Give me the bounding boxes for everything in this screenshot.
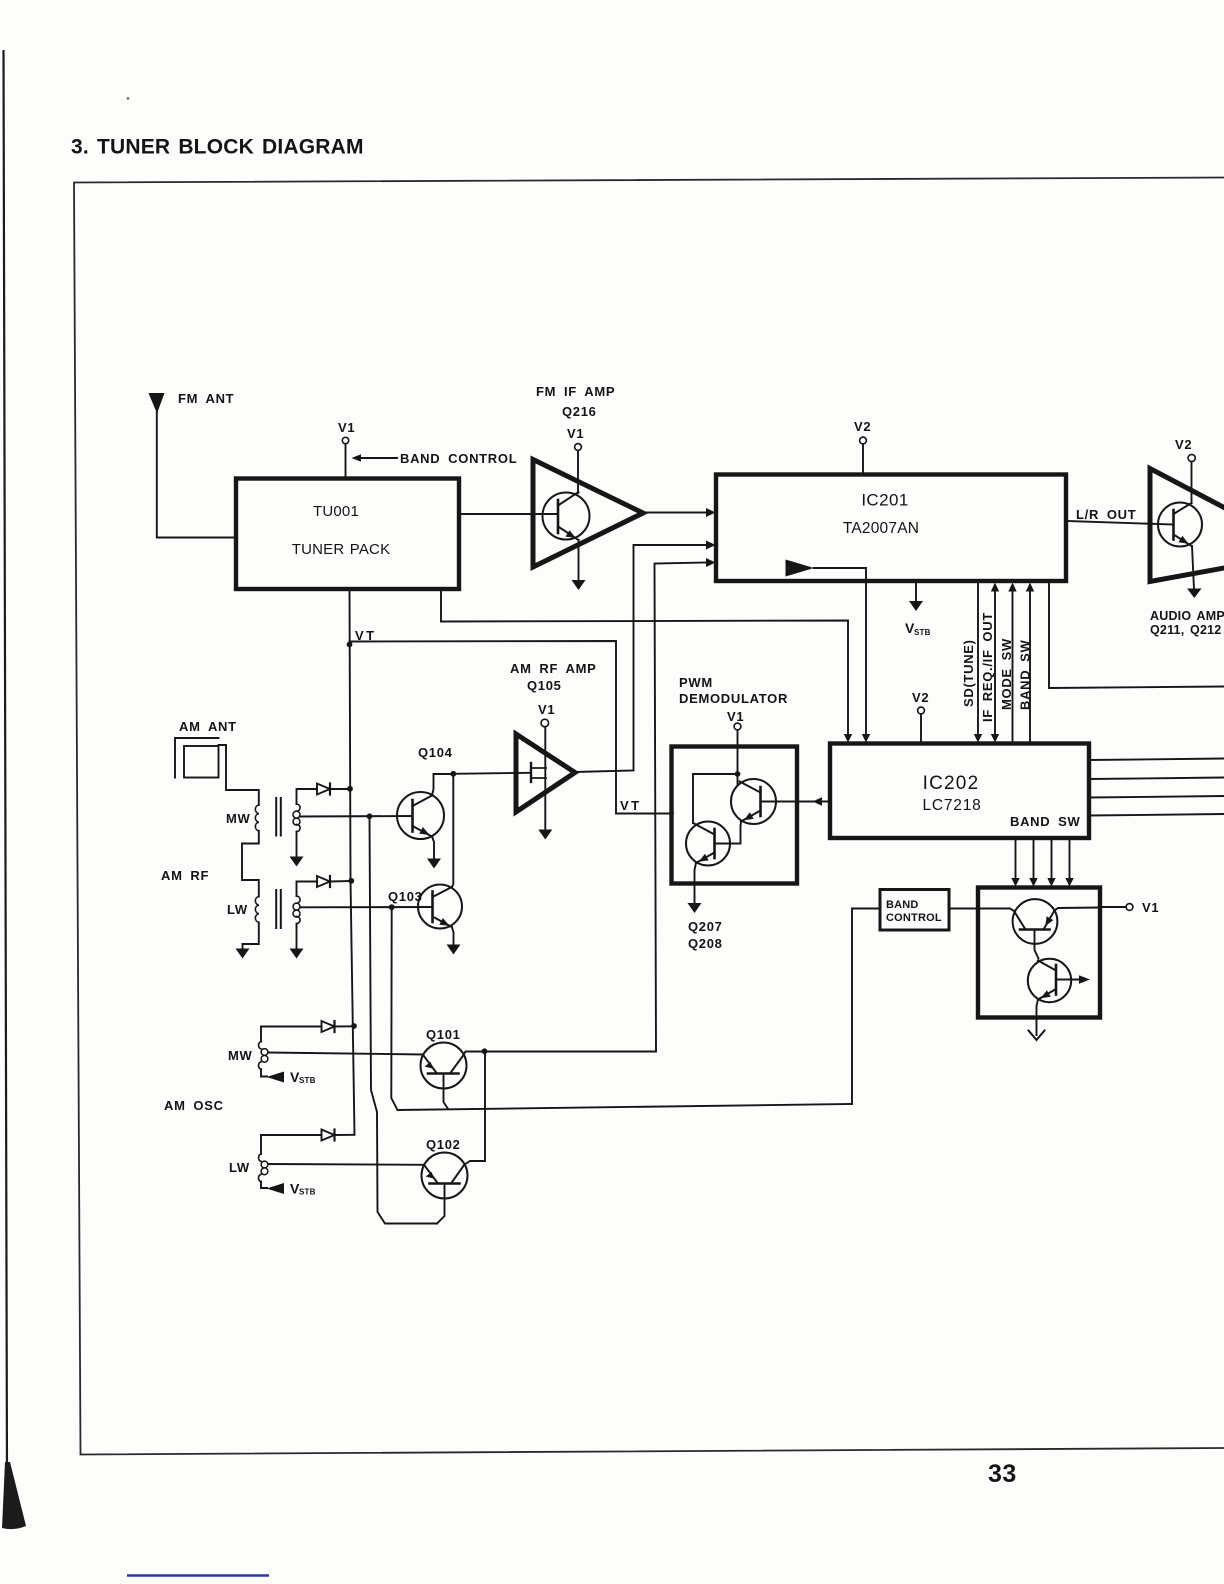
wire OSC MW tap to Q101 emitter: [268, 1053, 423, 1055]
svg-text:AM RF: AM RF: [161, 868, 209, 883]
wire V2 to IC201: [862, 444, 864, 474]
wire IC202 output right 3: [1089, 796, 1224, 798]
wire IC202 output right 1: [1089, 759, 1224, 761]
transistor Q216: [543, 492, 590, 540]
svg-text:AM OSC: AM OSC: [164, 1098, 224, 1113]
svg-text:Q207: Q207: [688, 919, 723, 934]
svg-text:BAND SW: BAND SW: [1018, 639, 1033, 710]
ground (audio amp): [1187, 589, 1202, 599]
svg-text:MW: MW: [226, 811, 251, 826]
wire LW tap to Q103 base: [300, 906, 433, 908]
transistor Q103: [418, 885, 462, 929]
svg-text:SD(TUNE): SD(TUNE): [961, 639, 976, 707]
wire IC201 bottom-right to page edge: [1049, 581, 1224, 688]
wire AM ANT to MW transformer: [219, 745, 259, 805]
wire Q102 collector up to junction: [465, 1052, 486, 1165]
wire V1 into PWM box: [737, 730, 739, 784]
svg-text:L/R OUT: L/R OUT: [1076, 507, 1136, 522]
svg-text:AM RF AMP: AM RF AMP: [510, 661, 596, 676]
box BAND CONTROL: [880, 890, 949, 931]
svg-text:Q211, Q212: Q211, Q212: [1150, 623, 1221, 637]
ground (LW secondary): [290, 949, 304, 959]
ground (FM IF amp): [572, 580, 586, 590]
amplifier AUDIO AMP triangle: [1150, 469, 1224, 582]
svg-text:IC201: IC201: [861, 491, 908, 510]
core MW: [275, 798, 277, 836]
node MW diode junction: [347, 786, 353, 792]
wire OSC LW top to diode: [261, 1135, 322, 1154]
transistor Q207: [731, 779, 776, 824]
wire band sw upper to V1 rail: [1055, 908, 1101, 911]
page border frame: [74, 178, 1224, 1455]
svg-text:CONTROL: CONTROL: [886, 912, 942, 924]
terminal V1 (Q105): [541, 719, 549, 727]
wire diode to VT rail: [335, 1025, 355, 1027]
wire IC202 to PWM demodulator: [761, 801, 831, 803]
transistor band sw lower: [1028, 959, 1071, 1002]
svg-text:Q103: Q103: [388, 889, 423, 904]
svg-text:TUNER PACK: TUNER PACK: [292, 541, 391, 558]
supply Vstb (MW osc): [267, 1072, 285, 1083]
terminal V1 (PWM): [734, 723, 741, 730]
speck: [127, 97, 129, 99]
wire diode to VT rail: [330, 880, 352, 883]
wire OSC LW tap to Q102 emitter: [268, 1163, 424, 1166]
wire Q104 emitter to ground: [432, 837, 434, 860]
svg-text:MW: MW: [228, 1048, 253, 1063]
ground (band sw) open arrow: [1029, 1031, 1045, 1041]
core LW: [275, 890, 277, 928]
wire LW primary to ground: [243, 923, 259, 949]
svg-text:BAND SW: BAND SW: [1010, 814, 1081, 829]
diode D-LW-OSC: [322, 1130, 335, 1141]
transistor Q208: [686, 822, 730, 866]
box TU001 TUNER PACK: [236, 479, 459, 590]
svg-text:FM IF AMP: FM IF AMP: [536, 384, 615, 399]
transistor Q104: [397, 792, 444, 839]
wire AM RF amp out to IC201 input: [575, 545, 707, 772]
ground (Q104): [427, 859, 441, 869]
ground (LW primary): [236, 949, 250, 959]
wire TU001 bottom to IC202: [441, 589, 848, 735]
wire junction to AM RF amp input: [453, 773, 531, 774]
transistor Q211/Q212: [1158, 503, 1202, 547]
box IC201: [716, 475, 1066, 582]
coil AM OSC LW: [259, 1154, 261, 1161]
wire IC202 band sw output 4: [1069, 838, 1071, 879]
node B junction on Q103 base: [389, 904, 395, 910]
wire IF REQ./IF OUT: [994, 589, 996, 735]
svg-text:LW: LW: [227, 902, 248, 917]
wire V2 to IC202: [920, 714, 922, 743]
wire Q101 base down to band line: [444, 1074, 449, 1109]
svg-text:Q101: Q101: [426, 1027, 461, 1042]
svg-text:V2: V2: [1175, 437, 1192, 452]
wire TU001 to FM IF amp: [459, 513, 558, 515]
wire band sw to V1: [1100, 906, 1126, 908]
wire MW tap to Q104 base: [300, 815, 413, 818]
wire LW secondary top to diode: [297, 882, 318, 897]
wire Q103 emitter to ground: [452, 927, 454, 945]
svg-text:BAND CONTROL: BAND CONTROL: [400, 451, 517, 466]
node PWM junction: [735, 771, 741, 777]
wire band sw lower emitter to ground: [1037, 1000, 1039, 1036]
diode D-MW-RF: [317, 784, 330, 795]
svg-text:V2: V2: [912, 690, 929, 705]
wire B vertical (Q103 base to band line): [391, 907, 397, 1110]
ground (Q103): [447, 945, 461, 955]
transformer AM RF LW secondary: [297, 896, 301, 903]
diode D-LW-RF: [317, 876, 330, 887]
svg-text:V2: V2: [854, 419, 871, 434]
svg-text:MODE SW: MODE SW: [999, 638, 1014, 710]
terminal V2 (audio amp): [1188, 454, 1195, 461]
left margin scan line: [2, 50, 26, 1529]
wire audio amp emitter to ground: [1192, 546, 1194, 589]
wire MW secondary top to diode: [297, 789, 318, 804]
terminal V2 (IC201): [860, 437, 867, 444]
wire BAND SW: [1029, 589, 1031, 743]
wire SD(TUNE): [977, 581, 979, 735]
svg-text:STB: STB: [299, 1076, 316, 1085]
transistor band sw upper: [1013, 899, 1058, 944]
box PWM demodulator: [672, 747, 798, 884]
svg-text:V1: V1: [338, 420, 355, 435]
wire band sw lower base arrow: [1056, 979, 1080, 981]
wire OSC MW top to diode: [261, 1027, 322, 1042]
transistor Q101: [421, 1043, 467, 1089]
wire V2 to audio amp: [1191, 462, 1193, 503]
wire band control left and down: [852, 909, 880, 1105]
svg-text:Q102: Q102: [426, 1137, 461, 1152]
svg-text:VT: VT: [620, 798, 642, 813]
svg-text:PWM: PWM: [679, 675, 713, 690]
diode D-MW-OSC: [322, 1021, 335, 1032]
svg-text:FM ANT: FM ANT: [178, 391, 234, 406]
wire Q208 emitter to ground: [695, 863, 697, 904]
svg-text:TA2007AN: TA2007AN: [843, 520, 919, 537]
band control pointer arrow: [352, 454, 362, 462]
wire IC202 band sw output 2: [1033, 838, 1035, 879]
wire IC201 amp to IC202: [814, 568, 866, 735]
svg-text:Q208: Q208: [688, 936, 723, 951]
wire OSC LW bottom to Vstb: [261, 1182, 267, 1188]
wire OSC MW bottom to Vstb: [261, 1069, 267, 1076]
terminal V1 (band sw): [1126, 904, 1133, 911]
node LW diode junction: [348, 878, 354, 884]
wire IC202 band sw output 1: [1015, 838, 1017, 879]
node A junction on Q104 base: [367, 813, 373, 819]
amplifier FM IF AMP triangle: [533, 460, 643, 568]
transformer AM RF LW primary: [255, 897, 258, 923]
wire IC202 output right 4: [1089, 814, 1224, 816]
terminal V1 (TU001): [342, 437, 348, 443]
wire Vstb from IC201: [915, 581, 917, 602]
svg-text:V1: V1: [727, 709, 744, 724]
svg-text:STB: STB: [914, 628, 931, 637]
wire A vertical (Q104 base to Q102 base): [370, 816, 438, 1223]
amplifier symbol inside IC201: [786, 560, 815, 577]
wire V1 to TU001: [345, 444, 347, 478]
wire V1 through amp to ground: [544, 727, 546, 830]
wire Q102 base down to A line: [437, 1184, 445, 1224]
arrow Q208 ground: [688, 903, 702, 913]
node OSC MW junction: [351, 1023, 357, 1029]
svg-text:3. TUNER BLOCK DIAGRAM: 3. TUNER BLOCK DIAGRAM: [71, 136, 364, 159]
wire Q207 emitter to Q208 base: [716, 822, 741, 844]
wire diode to VT rail end: [335, 1134, 355, 1136]
svg-text:33: 33: [988, 1460, 1017, 1488]
wire FM IF amp out to IC201: [643, 512, 707, 514]
fet symbol Q105: [530, 763, 532, 782]
wire PWM junction to Q208 collector: [693, 774, 738, 823]
wire MW secondary to ground: [296, 832, 298, 857]
antenna FM ANT: [149, 393, 165, 414]
node Q101 collector junction: [482, 1048, 488, 1054]
wire MODE SW: [1012, 589, 1014, 743]
svg-text:TU001: TU001: [313, 503, 359, 520]
blue underline mark bottom left: [127, 1574, 269, 1576]
supply Vstb (LW osc): [267, 1183, 285, 1194]
wire IC202 band sw output 3: [1051, 838, 1053, 879]
terminal V2 (IC202): [918, 707, 925, 714]
wire LW secondary to ground: [296, 924, 298, 949]
wire V1 to Q216 collector: [577, 451, 579, 494]
wire band control line: [398, 1104, 853, 1110]
ground (AM RF amp): [538, 830, 552, 840]
svg-text:Q105: Q105: [527, 678, 562, 693]
amplifier AM RF AMP triangle: [516, 734, 575, 812]
svg-text:IC202: IC202: [923, 773, 980, 794]
wire band control to band sw box: [949, 908, 978, 910]
svg-text:DEMODULATOR: DEMODULATOR: [679, 691, 788, 706]
node Q104 collector junction: [450, 771, 456, 777]
svg-text:V1: V1: [567, 426, 584, 441]
wire Q104 collector up to junction: [432, 774, 453, 796]
svg-text:AM ANT: AM ANT: [179, 719, 237, 734]
box band switch: [978, 888, 1100, 1018]
svg-text:V1: V1: [538, 702, 555, 717]
antenna AM ANT loop: [175, 738, 219, 778]
svg-text:Q104: Q104: [418, 745, 453, 760]
arrow Vstb: [909, 601, 923, 611]
wire TU001 VT vertical: [350, 589, 355, 1135]
transformer AM RF MW secondary: [297, 804, 301, 811]
svg-text:LC7218: LC7218: [922, 797, 981, 814]
wire FM ANT to TU001: [157, 412, 236, 538]
transistor Q102: [422, 1153, 468, 1199]
wire L/R OUT: [1066, 521, 1174, 525]
wire junction down to Q103 collector: [452, 774, 454, 888]
svg-text:Q216: Q216: [562, 404, 597, 419]
svg-text:V1: V1: [1142, 900, 1159, 915]
ground (MW secondary): [290, 857, 304, 867]
arrow into PWM demodulator: [813, 797, 823, 806]
wire diode to VT rail: [330, 788, 350, 790]
svg-text:AUDIO AMP: AUDIO AMP: [1150, 609, 1224, 623]
wire VT branch to PWM: [350, 641, 674, 814]
svg-text:VT: VT: [355, 628, 377, 643]
terminal V1 (Q216): [575, 444, 582, 451]
wire Q216 emitter to ground: [578, 540, 580, 581]
coil AM OSC MW: [259, 1042, 261, 1049]
transformer AM RF MW primary: [255, 805, 258, 831]
svg-text:BAND: BAND: [886, 899, 919, 911]
wire AM OSC out to IC201 input: [485, 563, 708, 1052]
wire IC202 output right 2: [1089, 778, 1224, 780]
wire junction arrow into IC202: [844, 734, 852, 743]
svg-text:STB: STB: [299, 1188, 316, 1197]
wire into band sw upper: [978, 909, 1014, 912]
wire band sw upper base down: [1035, 930, 1039, 959]
wire Q101 collector to junction: [464, 1052, 485, 1056]
box IC202: [830, 744, 1089, 839]
svg-text:IF REQ./IF OUT: IF REQ./IF OUT: [980, 612, 995, 722]
wire MW primary to LW primary: [242, 831, 259, 897]
svg-text:LW: LW: [229, 1160, 250, 1175]
node VT junction: [347, 642, 353, 648]
